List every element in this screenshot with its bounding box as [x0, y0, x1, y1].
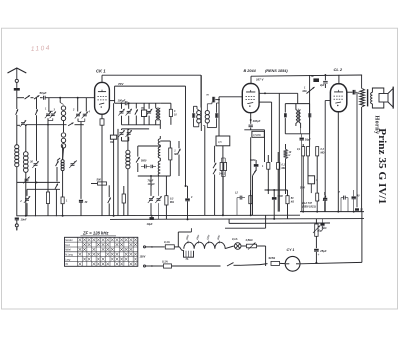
IFT3 secondary cap	[308, 104, 311, 134]
variable capacitor	[138, 175, 171, 216]
resistor 50k	[286, 190, 294, 219]
svg-text:0,5: 0,5	[218, 140, 222, 144]
resistor 0.3M	[165, 176, 174, 219]
resistor 0.5M	[252, 131, 264, 137]
capacitor	[317, 198, 327, 212]
svg-text:TA: TA	[65, 263, 68, 266]
branch to volume pot	[325, 101, 330, 198]
capacitor 25uF	[314, 236, 327, 262]
wire	[36, 148, 37, 216]
wire bus link	[229, 215, 266, 228]
antenna coil L1	[15, 145, 19, 167]
wire	[257, 246, 266, 266]
wire	[113, 103, 115, 135]
svg-text:5000: 5000	[278, 195, 284, 198]
variable capacitor	[20, 189, 30, 216]
tube label small	[302, 201, 316, 208]
svg-text:915Ω: 915Ω	[269, 256, 276, 260]
antenna series capacitor	[14, 88, 20, 98]
tube RENS1854	[242, 84, 259, 113]
svg-text:30µF: 30µF	[305, 138, 311, 142]
svg-text:B 2044: B 2044	[244, 69, 257, 73]
resistor 50	[310, 75, 319, 86]
capacitor 50pF	[40, 91, 47, 100]
capacitor on bus	[355, 208, 363, 211]
switch	[135, 103, 138, 125]
variable resistor 1M	[303, 87, 315, 147]
wire riser	[178, 228, 191, 247]
svg-text:Prinz 35 G IV/1: Prinz 35 G IV/1	[376, 128, 388, 204]
label 70V	[118, 82, 124, 86]
svg-text:Lang: Lang	[65, 259, 71, 261]
svg-text:kΩ: kΩ	[291, 200, 294, 203]
capacitor 10uF on bus	[147, 217, 154, 226]
switch	[108, 198, 111, 203]
variable capacitor	[155, 176, 161, 219]
switch	[323, 192, 326, 212]
ground	[15, 220, 18, 231]
wire column	[35, 98, 37, 148]
bus line 5	[225, 227, 266, 229]
oscillator coil upper	[61, 106, 65, 132]
tube bottom lead	[250, 113, 252, 124]
rail from CK1	[102, 74, 201, 76]
svg-text:BL2 737: BL2 737	[302, 201, 313, 205]
bus line 2	[110, 218, 364, 221]
wire antenna to band switch	[17, 97, 24, 99]
wire	[113, 139, 115, 216]
svg-text:MΩ: MΩ	[170, 201, 174, 204]
wire rail to transformer	[361, 75, 363, 89]
svg-text:7kΩ: 7kΩ	[322, 226, 327, 230]
variable capacitor trimmer	[20, 120, 26, 127]
svg-text:MΩ: MΩ	[303, 90, 307, 93]
svg-text:400pF: 400pF	[252, 119, 261, 123]
svg-text:0,5MΩ: 0,5MΩ	[253, 133, 261, 137]
trimmer	[118, 129, 124, 141]
variable capacitor	[69, 160, 77, 168]
IFT3 coils	[285, 104, 300, 128]
wire	[310, 184, 312, 193]
lead right lower	[259, 102, 272, 162]
capacitor 30uF	[300, 134, 312, 212]
label 167V	[256, 78, 264, 82]
tap 2	[197, 234, 201, 243]
wire link	[17, 181, 60, 183]
mains input 2	[140, 256, 164, 268]
output transformer secondary	[371, 92, 373, 103]
wire	[203, 126, 205, 162]
resistor	[316, 193, 319, 212]
tap 3	[207, 234, 211, 243]
resistor 1M	[160, 141, 178, 176]
resistor 390	[110, 135, 117, 144]
svg-text:CK 1: CK 1	[96, 69, 106, 74]
fuse 0.1A	[164, 240, 180, 249]
trimmer block 70/145	[141, 103, 147, 125]
speaker loop top	[372, 88, 383, 94]
oscillator coil mid	[61, 133, 65, 160]
fuse 0.1A	[162, 259, 221, 268]
capacitor 10uF	[317, 219, 325, 233]
brand Horny	[374, 116, 380, 135]
coil	[126, 150, 130, 169]
wire	[244, 128, 264, 130]
resistor	[46, 192, 49, 216]
capacitor 5000	[250, 159, 258, 171]
capacitor 100pF	[115, 98, 161, 105]
wire transformer down	[361, 107, 363, 212]
resistor	[118, 186, 126, 216]
svg-text:MΩ: MΩ	[321, 151, 325, 154]
resistor box	[216, 136, 230, 146]
capacitor 400pF	[249, 119, 261, 127]
wire	[127, 129, 129, 216]
wire grid to tube	[215, 97, 242, 101]
wire	[16, 115, 18, 145]
oscillator coil stack	[158, 136, 160, 176]
small box	[308, 176, 318, 184]
resistor 915	[269, 256, 280, 266]
connector	[265, 189, 288, 191]
wire	[40, 97, 43, 99]
node	[325, 74, 327, 76]
coil L2	[24, 128, 29, 216]
capacitor 10nF	[15, 218, 27, 222]
IF transformer 1	[156, 103, 161, 129]
speaker loop bottom	[372, 102, 383, 108]
resistor 4.5k	[245, 238, 257, 250]
capacitor	[339, 191, 349, 212]
svg-text:(RENS 1854): (RENS 1854)	[265, 69, 288, 73]
switch S1b	[34, 95, 39, 99]
bus line 1	[17, 214, 300, 217]
svg-text:40: 40	[356, 195, 360, 198]
wire column	[60, 98, 63, 105]
wire	[78, 119, 85, 199]
capacitor	[151, 165, 156, 168]
variable capacitor pair	[72, 109, 91, 119]
svg-text:+: +	[318, 253, 320, 257]
trimmer	[122, 129, 132, 141]
labels 70pF 140pF	[148, 180, 156, 186]
svg-text:2×0,1: 2×0,1	[218, 173, 226, 176]
wire	[26, 123, 84, 126]
pot parallel branch	[322, 225, 324, 239]
capacitor 2uF	[319, 75, 328, 88]
wire CK1 bottom	[100, 114, 104, 216]
IF alignment table	[65, 237, 138, 266]
mains switch	[221, 263, 261, 266]
tap 4	[217, 235, 221, 244]
resistor	[61, 171, 68, 217]
HF choke	[284, 149, 292, 158]
wire	[108, 185, 110, 216]
resistor	[249, 190, 252, 215]
wire CK1 anode up	[101, 75, 103, 82]
IFT2 secondary top	[207, 102, 212, 104]
wire CY1 to B+	[300, 262, 362, 264]
label CL2	[334, 67, 343, 72]
tap 1	[186, 234, 190, 243]
capacitor	[185, 186, 193, 219]
switch	[55, 184, 58, 189]
resistor w label	[316, 140, 325, 193]
wire rail into IFT2	[200, 75, 202, 131]
variable capacitor pair	[45, 108, 56, 119]
anode rail corner	[251, 75, 362, 84]
svg-text:7A: 7A	[186, 259, 189, 261]
switch S1a	[25, 95, 30, 99]
svg-text:CL 2: CL 2	[334, 67, 343, 72]
dial lamp 0.1A	[232, 237, 241, 249]
IFT3 primary cap	[284, 104, 287, 134]
wire	[57, 158, 60, 182]
screen rail	[115, 86, 186, 123]
variable capacitor 50	[146, 103, 152, 125]
svg-text:25µF: 25µF	[319, 249, 327, 253]
svg-text:500: 500	[97, 177, 102, 181]
svg-text:50pF: 50pF	[40, 91, 47, 95]
wire column	[78, 98, 87, 112]
svg-text:CY 1: CY 1	[287, 248, 295, 252]
tube B2044 label	[244, 69, 289, 73]
trimmer 30pF	[30, 160, 39, 168]
svg-text:5000: 5000	[141, 160, 147, 163]
IFT2 primary coil	[197, 106, 201, 127]
rectifier CY1 label	[287, 248, 295, 252]
wire	[260, 264, 268, 265]
svg-text:100pF: 100pF	[118, 98, 126, 102]
svg-text:(REN 1821): (REN 1821)	[302, 204, 316, 208]
bus line 4 right	[300, 211, 364, 213]
svg-text:150V: 150V	[140, 256, 146, 259]
svg-text:4,5kΩ: 4,5kΩ	[245, 238, 253, 242]
IFT3 top	[285, 103, 309, 105]
labels	[300, 187, 305, 190]
bus nodes	[25, 211, 355, 221]
wire to IFT3	[279, 93, 297, 103]
wire B+ up	[361, 212, 363, 263]
resistor pair	[297, 134, 305, 212]
wire	[31, 97, 34, 99]
capacitor 5000	[272, 190, 284, 219]
capacitor	[79, 200, 88, 216]
wire CK1 side	[109, 86, 114, 103]
svg-text:5000: 5000	[250, 159, 256, 162]
IFT2 secondary coil	[205, 104, 216, 128]
wire	[285, 144, 287, 194]
oscillator coil	[61, 145, 64, 171]
wire	[138, 145, 161, 147]
potentiometer 7k	[313, 219, 326, 237]
wire	[222, 146, 224, 215]
wire	[16, 167, 18, 217]
wire	[204, 162, 206, 215]
mains input 1	[144, 246, 165, 248]
wire 50pF to CK1 input	[45, 97, 94, 99]
wire tap line	[17, 124, 20, 126]
capacitor 5000	[141, 160, 150, 169]
svg-text:50/4: 50/4	[300, 187, 305, 190]
wire	[251, 130, 265, 215]
tube CK1 label	[96, 69, 106, 74]
capacitor 30uF	[352, 190, 361, 212]
grid coupling capacitor	[207, 94, 215, 103]
svg-text:Mittel: Mittel	[65, 249, 71, 252]
padder capacitor	[23, 177, 29, 184]
svg-text:H: H	[289, 154, 291, 157]
svg-text:2µF: 2µF	[319, 83, 325, 87]
wire	[56, 149, 58, 159]
wire	[241, 245, 247, 247]
tube CL2	[330, 75, 346, 112]
heater dropper winding	[180, 242, 226, 251]
antenna	[8, 68, 27, 88]
CL2 side lead	[347, 90, 360, 207]
node	[25, 124, 27, 128]
tube CK1	[95, 82, 110, 114]
wire antenna down	[16, 98, 18, 109]
svg-text:1104: 1104	[31, 45, 51, 53]
wire	[217, 100, 220, 136]
svg-text:M.Lang: M.Lang	[65, 254, 73, 256]
svg-text:10µF: 10µF	[147, 222, 153, 226]
svg-text:MΩ: MΩ	[282, 167, 286, 170]
wire	[55, 190, 57, 217]
capacitor	[235, 192, 245, 216]
switch in antenna lead	[16, 109, 18, 115]
wire	[47, 118, 53, 192]
transformer core	[367, 89, 368, 106]
bus line 3	[229, 222, 330, 224]
variable capacitor 6	[118, 102, 124, 125]
switch	[136, 146, 139, 172]
svg-text:Sender: Sender	[65, 240, 73, 242]
svg-text:0,1A: 0,1A	[232, 237, 238, 241]
switch column	[170, 141, 180, 176]
lamp socket	[184, 251, 194, 261]
model Prinz 35 G IV/1	[376, 128, 388, 204]
svg-text:10nF: 10nF	[21, 218, 27, 222]
resistor	[307, 140, 310, 176]
rectifier CY1	[280, 256, 300, 271]
switch	[253, 170, 256, 215]
wire column	[48, 98, 50, 112]
speaker voice coil	[379, 94, 388, 103]
resistor	[262, 155, 270, 194]
resistor w label	[277, 152, 286, 212]
svg-text:167 V: 167 V	[256, 78, 264, 82]
resistor	[160, 103, 177, 125]
rail CL2	[309, 75, 311, 78]
IFT2 secondary cap	[215, 103, 218, 128]
switch	[56, 161, 59, 166]
wire	[117, 129, 119, 216]
connector line	[122, 125, 161, 129]
twin resistors 2x0.1M	[218, 158, 227, 215]
CL2 bottom leads	[337, 113, 339, 212]
output transformer primary	[360, 89, 365, 107]
switch pair	[213, 146, 216, 215]
IFT3 bottom	[285, 128, 309, 134]
resistor 500	[91, 177, 107, 185]
variable capacitor 7	[126, 102, 132, 125]
wire link2	[27, 188, 60, 190]
IFT2 primary cap	[192, 106, 199, 127]
speaker cone	[388, 87, 393, 109]
wire	[225, 246, 234, 249]
svg-text:ZF = 128 kHz: ZF = 128 kHz	[82, 231, 109, 236]
svg-text:0,1A: 0,1A	[164, 240, 170, 244]
svg-text:0,1A: 0,1A	[162, 259, 168, 263]
wire rail down	[200, 75, 202, 107]
label ZF 128kHz	[81, 231, 117, 236]
grid cathode leads right	[259, 92, 279, 211]
wire	[185, 124, 188, 187]
